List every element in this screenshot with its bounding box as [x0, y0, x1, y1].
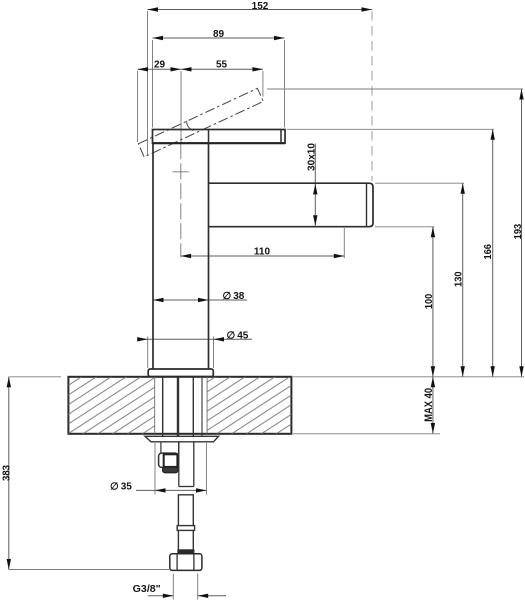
svg-text:100: 100	[423, 294, 435, 310]
svg-text:193: 193	[512, 224, 524, 240]
svg-text:∅ 38: ∅ 38	[223, 291, 245, 302]
svg-text:∅ 35: ∅ 35	[110, 482, 132, 493]
svg-text:89: 89	[213, 29, 225, 40]
svg-text:166: 166	[482, 244, 494, 260]
svg-text:55: 55	[216, 60, 228, 71]
svg-text:∅ 45: ∅ 45	[227, 331, 249, 342]
svg-text:152: 152	[252, 1, 269, 12]
svg-text:G3/8": G3/8"	[133, 584, 161, 595]
svg-text:110: 110	[254, 247, 271, 258]
svg-text:383: 383	[1, 465, 13, 481]
svg-text:MAX 40: MAX 40	[423, 388, 435, 422]
svg-text:30x10: 30x10	[305, 143, 317, 171]
svg-text:130: 130	[453, 271, 465, 287]
svg-text:29: 29	[154, 60, 166, 71]
